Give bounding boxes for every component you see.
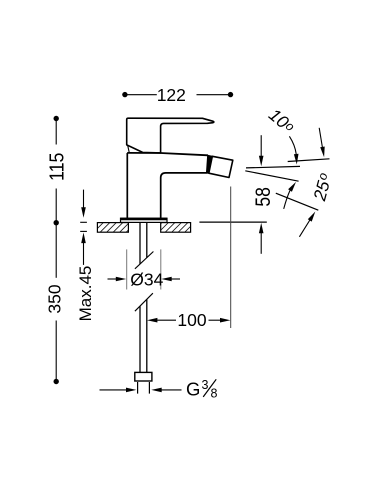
faucet body top line [127, 153, 208, 155]
spout head thick joint edge [207, 155, 213, 173]
angle 25 arrow to line E [299, 220, 310, 237]
base flange [121, 218, 168, 222]
handle chamfer sliver line [128, 146, 130, 153]
dimension 100 arrows [157, 319, 176, 321]
faucet body left edge [126, 153, 128, 218]
svg-text:Max.45: Max.45 [76, 266, 95, 322]
dimension G3/8 left arrow [100, 389, 127, 391]
dimension Ø34 arrows [108, 278, 118, 280]
dimension 115/350 vertical line [55, 120, 57, 380]
pipe break slash upper [135, 252, 154, 269]
spout centerline [230, 187, 232, 329]
G3/8 nut [135, 372, 152, 381]
svg-text:Ø34: Ø34 [130, 270, 163, 290]
svg-text:115: 115 [46, 153, 68, 182]
threaded shank lower [140, 299, 147, 372]
svg-text:100: 100 [177, 310, 206, 330]
countertop hatched section right [161, 223, 191, 233]
dimension 58 bottom arrow [260, 233, 262, 254]
svg-text:58: 58 [252, 187, 275, 207]
angle 10 arc arrow [289, 136, 296, 154]
dimension 58 top arrow [260, 135, 262, 156]
dimension G3/8 ticks [137, 382, 139, 394]
svg-text:3: 3 [202, 378, 209, 392]
reference line E stream slope [276, 193, 319, 210]
dimension 122 line left segment [125, 94, 230, 96]
dimension 122 end dots [122, 92, 127, 97]
svg-text:122: 122 [157, 85, 186, 105]
pipe break slash lower [135, 293, 153, 311]
countertop hatched section left [97, 223, 128, 233]
dimension Max.45 arrows [80, 190, 87, 265]
threaded shank upper [140, 223, 147, 264]
svg-text:8: 8 [211, 387, 218, 401]
dimension G3/8 right arrow [162, 389, 182, 391]
reference line B outlet slope [245, 171, 298, 181]
svg-text:350: 350 [45, 284, 65, 313]
reference line A horizontal [246, 166, 300, 168]
svg-text:G: G [186, 379, 200, 400]
angle 25 arrow to line B [284, 190, 290, 209]
faucet body right edge and spout arm underside [161, 155, 208, 218]
reference line D upper slope [288, 159, 330, 162]
spout head [209, 156, 233, 177]
faucet handle outline [127, 118, 214, 153]
dimension Ø34 extension lines [127, 249, 161, 289]
countertop surface extension line [199, 221, 266, 223]
dimension dots 115/350 [54, 116, 59, 121]
angle arrow on line D [319, 128, 322, 148]
